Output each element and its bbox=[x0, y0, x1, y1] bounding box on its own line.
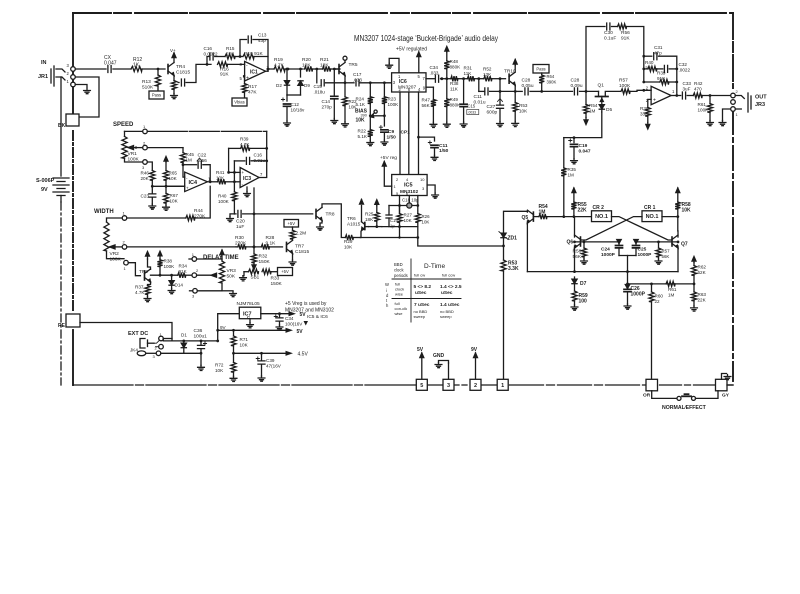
svg-text:NJM78L05: NJM78L05 bbox=[237, 301, 261, 307]
wire jack ring to BK box bbox=[75, 77, 99, 117]
terminal circle DELAY 2 bbox=[192, 268, 199, 278]
wire C20 node vertical bbox=[253, 214, 255, 247]
svg-text:R39: R39 bbox=[240, 137, 249, 142]
svg-text:C30: C30 bbox=[604, 30, 613, 36]
connector square 1 bbox=[497, 379, 508, 390]
ground below C12 bbox=[284, 121, 291, 126]
svg-text:NO.1: NO.1 bbox=[646, 214, 659, 220]
text DELAY TIME bbox=[203, 255, 239, 261]
svg-text:C39: C39 bbox=[266, 358, 275, 363]
wire Q7 collector row to C25 bbox=[636, 241, 679, 244]
resistor R35 1M bbox=[561, 138, 576, 217]
capacitor C24 1000P bbox=[601, 240, 623, 259]
text WIDTH bbox=[94, 209, 114, 215]
svg-text:R37: R37 bbox=[135, 285, 144, 290]
svg-text:+5V reg: +5V reg bbox=[380, 155, 397, 161]
frame bottom bus wire bbox=[73, 384, 733, 386]
wire TR9 collector row bbox=[151, 274, 178, 276]
connector square OR bbox=[643, 379, 658, 398]
svg-text:10K: 10K bbox=[215, 368, 224, 373]
svg-text:C16: C16 bbox=[254, 153, 263, 158]
svg-text:R22: R22 bbox=[358, 129, 367, 134]
wire lower rail flip-flop bbox=[527, 270, 678, 273]
resistor R17 47K bbox=[242, 76, 257, 98]
terminal circle SPEED 3 bbox=[142, 160, 147, 170]
connector square 5 bbox=[416, 379, 427, 390]
resistor R38c 100K bbox=[157, 259, 175, 277]
svg-text:91K: 91K bbox=[179, 269, 188, 274]
resistor R13 510K bbox=[142, 69, 161, 91]
svg-text:270K: 270K bbox=[194, 214, 206, 220]
svg-text:5V: 5V bbox=[417, 347, 424, 353]
wire Q6 collector up bbox=[574, 217, 576, 237]
resistor R24 5.1K bbox=[356, 83, 373, 116]
terminal circle SPEED 2 bbox=[143, 141, 148, 150]
ground left of SB1 bbox=[240, 272, 247, 281]
svg-text:C36: C36 bbox=[194, 328, 203, 334]
svg-text:TR8: TR8 bbox=[326, 212, 335, 218]
resistor R49 880K bbox=[444, 79, 461, 123]
svg-text:WIDTH: WIDTH bbox=[94, 209, 114, 215]
resistor R71 10K bbox=[231, 329, 249, 355]
transistor Q7 bbox=[672, 235, 688, 248]
svg-text:C28: C28 bbox=[571, 78, 580, 84]
table D-Time vertical rule bbox=[410, 259, 412, 322]
svg-text:9V: 9V bbox=[471, 347, 478, 353]
ground symbol connector 3 bbox=[435, 361, 448, 368]
terminal circle SPEED 1 bbox=[125, 124, 148, 134]
svg-text:GY: GY bbox=[722, 393, 730, 399]
svg-text:R27: R27 bbox=[404, 213, 413, 218]
svg-text:0.047: 0.047 bbox=[579, 148, 591, 154]
frame left border wire bbox=[72, 13, 74, 385]
svg-text:R61: R61 bbox=[698, 102, 707, 107]
capacitor C14 270p bbox=[322, 69, 338, 119]
capacitor C26 1000P bbox=[624, 272, 646, 304]
wire TR6 row into ZD1 column bbox=[502, 245, 505, 248]
svg-text:DELAY TIME: DELAY TIME bbox=[203, 255, 239, 261]
svg-text:9V: 9V bbox=[220, 325, 227, 330]
op-amp IC1 bbox=[240, 61, 270, 81]
wire RE box to EXT DC bbox=[80, 323, 172, 341]
wire 9V node right bbox=[218, 340, 234, 342]
svg-text:+: + bbox=[653, 98, 656, 104]
svg-text:C34: C34 bbox=[430, 65, 439, 70]
svg-text:+: + bbox=[246, 76, 249, 82]
wire GY to right border bbox=[727, 384, 733, 386]
diode D5 bbox=[599, 105, 612, 113]
svg-text:BBD: BBD bbox=[394, 262, 403, 267]
resistor R31 11K bbox=[464, 66, 481, 82]
svg-text:C31: C31 bbox=[654, 45, 663, 50]
text 5V rail 1 bbox=[300, 312, 309, 326]
table D-Time rule 1 bbox=[392, 278, 461, 280]
svg-text:D1: D1 bbox=[181, 333, 187, 338]
supply arrow +5V regulated bbox=[417, 52, 421, 73]
svg-text:0.1uF: 0.1uF bbox=[604, 36, 616, 42]
resistor R63 22K bbox=[691, 284, 706, 306]
svg-text:+5V: +5V bbox=[281, 269, 289, 274]
ground hook IC6 top left bbox=[389, 58, 399, 72]
svg-text:0.01u: 0.01u bbox=[474, 100, 486, 106]
connector square GY bbox=[716, 379, 730, 398]
wire JK4 tip to node bbox=[163, 339, 217, 341]
svg-text:R65: R65 bbox=[169, 171, 178, 176]
svg-text:Q7: Q7 bbox=[681, 242, 688, 248]
jack JR1 input bbox=[38, 60, 75, 87]
svg-text:R13: R13 bbox=[142, 79, 151, 85]
connector square 2 bbox=[470, 379, 481, 390]
ground below C14 bbox=[331, 119, 338, 124]
svg-text:D5: D5 bbox=[606, 107, 612, 113]
resistor R20 10K bbox=[302, 57, 323, 72]
ground below R57b bbox=[655, 259, 662, 264]
diode D1 bbox=[181, 333, 187, 354]
supply arrow R38c bbox=[158, 251, 162, 259]
svg-text:NO.1: NO.1 bbox=[595, 214, 608, 220]
ground TR8 emitter bbox=[317, 221, 324, 231]
svg-text:5.1K: 5.1K bbox=[358, 134, 368, 139]
wire SPEED 3 to R46 bbox=[147, 162, 152, 170]
wire TR5 emitter row2 bbox=[344, 76, 354, 85]
diode D2 bbox=[276, 68, 290, 95]
resistor R25 18K bbox=[365, 206, 379, 227]
resistor R23 100K bbox=[382, 83, 399, 116]
wire IC6 pin4 to IC5 bbox=[418, 92, 420, 175]
transistor TR10 bbox=[500, 69, 516, 86]
table D-Time rule 2 bbox=[392, 298, 461, 300]
ground TR7 emitter bbox=[289, 254, 296, 266]
svg-text:R62: R62 bbox=[698, 265, 707, 270]
svg-text:R61: R61 bbox=[668, 287, 677, 292]
ground below R56b bbox=[581, 259, 588, 264]
ground IC5 right bbox=[432, 193, 439, 198]
diode D9 bbox=[287, 68, 310, 95]
svg-text:1000P: 1000P bbox=[601, 252, 616, 258]
supply arrow connector 5 bbox=[420, 353, 424, 379]
svg-text:10K: 10K bbox=[170, 199, 179, 204]
svg-text:MN3102: MN3102 bbox=[400, 189, 418, 195]
resistor R39b 91K bbox=[642, 71, 678, 85]
svg-text:C27: C27 bbox=[487, 104, 496, 110]
text 5V connector 5 bbox=[417, 347, 424, 353]
svg-text:R57: R57 bbox=[662, 249, 671, 254]
svg-text:100K: 100K bbox=[698, 108, 710, 113]
supply arrow R48 top bbox=[445, 47, 449, 53]
svg-text:IC3: IC3 bbox=[243, 176, 251, 182]
svg-text:56K: 56K bbox=[573, 254, 582, 260]
svg-text:C11: C11 bbox=[474, 94, 483, 100]
resistor R54 1M bbox=[583, 91, 597, 117]
svg-text:JR1: JR1 bbox=[38, 74, 48, 80]
svg-text:IC5 & IC6: IC5 & IC6 bbox=[307, 314, 328, 320]
svg-text:R53: R53 bbox=[519, 103, 528, 108]
capacitor C30 0.1uF bbox=[604, 23, 618, 42]
svg-text:R17: R17 bbox=[248, 84, 257, 90]
ground below C9 bbox=[381, 140, 388, 145]
svg-text:4.7K: 4.7K bbox=[135, 290, 145, 295]
svg-text:R15: R15 bbox=[226, 46, 235, 51]
wire CR1 cross to Q6 base bbox=[581, 217, 643, 240]
svg-text:5 <> 8.2: 5 <> 8.2 bbox=[414, 284, 432, 290]
svg-text:1M: 1M bbox=[186, 158, 193, 163]
svg-text:TR5: TR5 bbox=[349, 62, 358, 68]
svg-text:390K: 390K bbox=[547, 80, 557, 85]
capacitor CX 0.047 bbox=[104, 55, 131, 73]
wire C24 C25 bottom join bbox=[619, 256, 636, 272]
potentiometer VR2 100K bbox=[104, 218, 124, 263]
wire C26 node right bbox=[628, 283, 696, 286]
wire IC5 pin3 ground bbox=[427, 185, 435, 193]
svg-text:10K: 10K bbox=[356, 118, 366, 124]
svg-text:SPEED: SPEED bbox=[113, 122, 134, 128]
svg-text:.0022: .0022 bbox=[679, 68, 691, 73]
svg-text:C1815: C1815 bbox=[176, 70, 190, 76]
resistor R45 1M bbox=[180, 152, 194, 163]
transistor TR4 C1815 bbox=[168, 63, 190, 76]
ground below C11 1/50 bbox=[431, 155, 438, 160]
supply arrow R65 bbox=[164, 157, 168, 163]
ground below C23 bbox=[149, 204, 156, 209]
svg-text:5: 5 bbox=[420, 383, 423, 389]
resistor R57 100K bbox=[619, 78, 651, 95]
svg-text:Q1: Q1 bbox=[598, 83, 605, 89]
resistor R58 10K bbox=[675, 193, 691, 231]
svg-text:.033: .033 bbox=[430, 71, 439, 76]
supply arrow TR9 collector bbox=[146, 252, 150, 260]
svg-text:150K: 150K bbox=[271, 281, 283, 287]
wire Q6 emitter down bbox=[574, 246, 576, 272]
wire IC4 output bbox=[207, 181, 217, 183]
capacitor C22 .056 bbox=[183, 153, 212, 184]
svg-text:SB1: SB1 bbox=[251, 275, 260, 280]
svg-text:wise: wise bbox=[395, 292, 404, 297]
capacitor C25 1000P bbox=[633, 240, 653, 259]
svg-text:C32: C32 bbox=[679, 62, 688, 67]
svg-text:A1015: A1015 bbox=[347, 222, 361, 227]
svg-text:C14: C14 bbox=[322, 99, 331, 104]
junction box BK bbox=[58, 114, 79, 129]
svg-text:100K: 100K bbox=[218, 199, 230, 204]
svg-text:50K: 50K bbox=[227, 274, 236, 280]
svg-text:R72: R72 bbox=[215, 363, 224, 368]
svg-text:11K: 11K bbox=[450, 87, 459, 92]
svg-text:NORMAL⁄EFFECT: NORMAL⁄EFFECT bbox=[662, 405, 707, 411]
resistor R32 150K bbox=[251, 246, 270, 268]
ground right of R61 bbox=[719, 109, 731, 126]
text GND connector 3 bbox=[433, 353, 445, 359]
svg-text:.0033: .0033 bbox=[468, 111, 477, 115]
ground IC6 top left bbox=[386, 63, 393, 68]
resistor R37 4.7K bbox=[135, 282, 151, 297]
wire Q5 emitter down bbox=[526, 221, 528, 272]
ground below R59 bbox=[571, 305, 578, 310]
supply arrow R25 bbox=[375, 200, 379, 206]
svg-text:100K: 100K bbox=[110, 257, 122, 263]
svg-text:D2: D2 bbox=[276, 83, 282, 88]
svg-text:R42: R42 bbox=[694, 81, 703, 86]
svg-text:1: 1 bbox=[501, 383, 504, 389]
svg-text:IN: IN bbox=[41, 60, 47, 66]
svg-text:1M: 1M bbox=[668, 293, 675, 298]
wire WIDTH 2 rail long bbox=[127, 246, 236, 248]
wire IC6 pin2 to IC5 bbox=[400, 92, 410, 175]
svg-text:GND: GND bbox=[433, 353, 445, 359]
svg-text:D9: D9 bbox=[304, 83, 310, 88]
capacitor C31 47p bbox=[642, 45, 676, 69]
svg-text:D14: D14 bbox=[175, 283, 184, 288]
table D-Time row 2 bbox=[395, 301, 460, 319]
capacitor C36 100u1 bbox=[184, 328, 207, 355]
capacitor C17 .033 bbox=[353, 72, 392, 86]
capacitor C39 47/16V bbox=[256, 352, 282, 376]
svg-text:0.09u: 0.09u bbox=[571, 83, 583, 89]
ground below IC7 bbox=[247, 319, 254, 328]
svg-text:33K: 33K bbox=[640, 112, 649, 117]
capacitor C34b 100/16V bbox=[274, 314, 303, 327]
capacitor C15b .0033 bbox=[460, 79, 479, 123]
ground below R72 bbox=[230, 376, 237, 381]
svg-text:C18 10p: C18 10p bbox=[402, 198, 419, 203]
svg-text:R52: R52 bbox=[483, 67, 492, 72]
resistor R47 56K bbox=[422, 87, 437, 122]
resistor R59 100 bbox=[572, 291, 588, 305]
svg-text:VR1: VR1 bbox=[128, 151, 138, 157]
svg-text:RE: RE bbox=[58, 323, 66, 329]
ground TR4 emitter bbox=[171, 94, 178, 99]
title text bbox=[354, 33, 499, 43]
resistor R21 18K bbox=[320, 57, 340, 72]
ground below R63 bbox=[691, 306, 698, 311]
resistor R62 62K bbox=[691, 263, 706, 284]
ground below C27 bbox=[497, 122, 504, 127]
svg-text:clock: clock bbox=[394, 268, 404, 273]
wire 9V node up to IC7 bbox=[218, 314, 240, 341]
resistor R53b 3.3K bbox=[501, 246, 519, 379]
supply arrow TR6 bbox=[360, 200, 364, 222]
table D-Time header bbox=[394, 262, 455, 278]
svg-text:VR3: VR3 bbox=[227, 268, 237, 274]
resistor R41 10K bbox=[216, 170, 240, 184]
wire TR8 collector to R29 bbox=[322, 204, 345, 238]
svg-text:R39: R39 bbox=[657, 71, 666, 76]
wire IC4 plus input bbox=[166, 185, 185, 187]
IC chip IC5 MN3102 bbox=[392, 175, 427, 197]
svg-text:1uF: 1uF bbox=[236, 224, 244, 230]
wire jack sleeve to ground bbox=[75, 85, 87, 88]
svg-text:3.3K: 3.3K bbox=[508, 266, 519, 272]
svg-text:+5V: +5V bbox=[287, 221, 295, 226]
svg-text:sweep: sweep bbox=[440, 314, 452, 319]
svg-text:R44: R44 bbox=[194, 208, 203, 214]
svg-text:C24: C24 bbox=[601, 247, 610, 253]
svg-text:W: W bbox=[385, 282, 389, 287]
terminal circle WIDTH 3 bbox=[124, 260, 129, 271]
ground IC3 bottom bbox=[244, 187, 251, 197]
transistor Q1 bbox=[585, 83, 620, 105]
svg-text:100K: 100K bbox=[128, 157, 140, 163]
svg-text:10K: 10K bbox=[344, 245, 353, 250]
supply arrow R62 bbox=[692, 257, 696, 263]
svg-text:1000P: 1000P bbox=[631, 292, 646, 298]
connector square 3 bbox=[443, 379, 454, 390]
supply arrow +5V reg bbox=[382, 162, 391, 187]
svg-text:VR2: VR2 bbox=[110, 251, 120, 257]
svg-text:S-006P: S-006P bbox=[36, 178, 55, 184]
svg-text:IC4: IC4 bbox=[189, 180, 199, 186]
ground below C34b bbox=[276, 325, 283, 330]
transistor TR9 bbox=[139, 269, 151, 282]
svg-text:+: + bbox=[242, 170, 245, 175]
svg-text:20K: 20K bbox=[141, 176, 150, 181]
wire IC1 output row bbox=[266, 68, 274, 72]
capacitor C16b 0.01u bbox=[234, 153, 266, 165]
svg-text:100K: 100K bbox=[388, 102, 400, 107]
svg-text:100u1: 100u1 bbox=[194, 334, 208, 340]
box +5V above TR7 bbox=[284, 220, 299, 228]
resistor R52 13K bbox=[479, 67, 502, 82]
svg-text:9V: 9V bbox=[41, 187, 48, 193]
text NORMAL/EFFECT bbox=[662, 405, 707, 411]
trimmer SB1 bbox=[244, 269, 260, 279]
svg-text:R40: R40 bbox=[645, 60, 654, 65]
junction box RE bbox=[58, 314, 80, 329]
svg-text:TR4: TR4 bbox=[176, 64, 185, 70]
svg-text:R60: R60 bbox=[655, 294, 664, 299]
svg-text:880K: 880K bbox=[450, 65, 462, 70]
resistor R67 10K bbox=[163, 186, 178, 205]
svg-text:91K: 91K bbox=[621, 36, 630, 42]
svg-text:Pass: Pass bbox=[152, 93, 161, 98]
svg-text:R28: R28 bbox=[266, 235, 275, 241]
frame right border wire bbox=[732, 13, 734, 381]
svg-text:91K: 91K bbox=[220, 72, 229, 78]
svg-text:C34: C34 bbox=[285, 316, 294, 321]
zener ZD1 bbox=[499, 232, 517, 246]
svg-text:R38: R38 bbox=[450, 81, 459, 86]
svg-text:R71: R71 bbox=[240, 337, 249, 342]
resistor R56 91K bbox=[618, 24, 644, 82]
svg-text:10K: 10K bbox=[519, 109, 528, 114]
svg-text:R34: R34 bbox=[179, 264, 188, 269]
resistor R16 91K bbox=[206, 62, 245, 78]
capacitor C27 600p bbox=[487, 79, 504, 122]
svg-text:270p: 270p bbox=[322, 105, 333, 110]
svg-text:C9: C9 bbox=[388, 129, 394, 135]
svg-text:470: 470 bbox=[694, 87, 702, 92]
capacitor C19 0.047 bbox=[569, 138, 591, 159]
resistor R53 10K bbox=[513, 85, 529, 121]
svg-text:100K: 100K bbox=[164, 264, 176, 269]
capacitor C34 .033 bbox=[430, 65, 447, 82]
svg-text:CR 1: CR 1 bbox=[644, 205, 656, 211]
svg-text:R49: R49 bbox=[450, 97, 459, 102]
supply arrow VR3 top bbox=[220, 250, 224, 259]
resistor R29 10K bbox=[344, 235, 360, 250]
svg-text:R63: R63 bbox=[698, 292, 707, 297]
resistor R39c 4.7K bbox=[227, 137, 267, 174]
wire 4.5V rail bbox=[234, 351, 309, 358]
arrow below R54 bbox=[584, 118, 588, 125]
resistor R22b 5.1K bbox=[358, 116, 373, 141]
svg-text:1000P: 1000P bbox=[638, 252, 653, 258]
transistor TR6 A1015 bbox=[347, 216, 369, 238]
svg-text:+: + bbox=[186, 186, 189, 191]
resistor R28 9.1K bbox=[261, 235, 282, 249]
box +5V right of R33 bbox=[278, 268, 293, 276]
wire WIDTH 3 to TR9 bbox=[128, 263, 140, 276]
svg-text:10: 10 bbox=[420, 177, 425, 182]
